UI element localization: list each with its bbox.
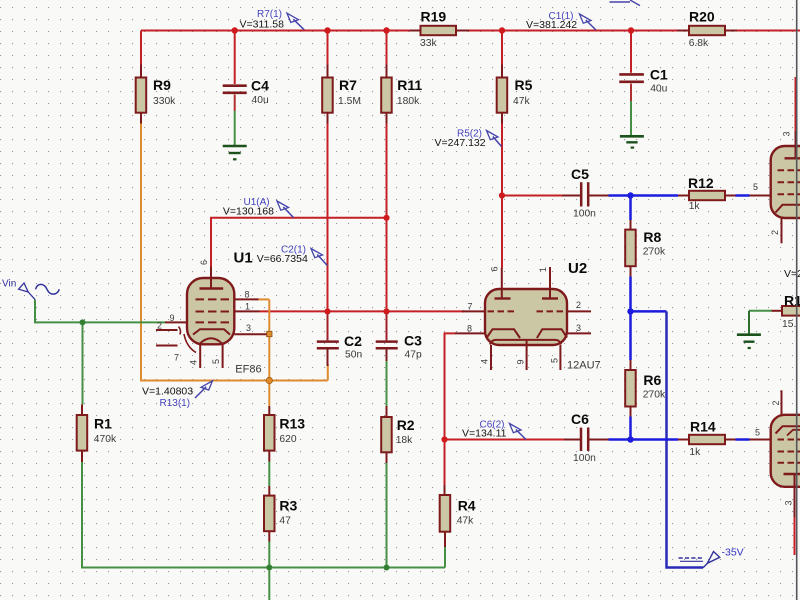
node grid bus / R7-C2 [324,308,330,314]
resistor R15 partial right edge [772,268,800,330]
wire C5 left [502,195,569,197]
U2 pin 6 lead into anode [501,268,503,299]
svg-text:1: 1 [245,302,250,312]
U2 pin 1 lead [549,267,551,299]
wire R11 top drop [386,31,388,66]
U1 pin 3 stub [234,333,266,335]
svg-text:U1: U1 [234,250,253,267]
U2 pin 7 stub [462,310,485,312]
svg-text:V=1.40803: V=1.40803 [142,386,193,398]
wire R12 right blue [736,194,750,197]
U4 pin 5 stub [750,439,771,441]
wire C4 top drop [234,31,236,85]
node rail-R7 [324,27,330,33]
wire R2 bottom to ground bus [386,463,388,568]
wire C2 top stub [327,311,329,340]
wire anode node down to grid node [386,218,388,312]
wire blue to R14 [631,438,679,441]
svg-text:V=66.7354: V=66.7354 [257,253,308,265]
capacitor C3 47p [376,333,422,361]
svg-text:2: 2 [770,230,780,235]
U1 pin 9 stub [165,321,187,323]
ground right of schematic [737,335,761,348]
resistor R20 6.8k horizontal [677,9,737,49]
wire R7 bottom to node [327,124,329,312]
svg-text:4: 4 [189,360,199,365]
tube U1 EF86 [156,250,269,376]
wire U3 anode feed [795,77,797,131]
U4 grid dashes [778,440,800,463]
ground under C4 [223,146,247,159]
wire R9 top drop [140,31,142,66]
U2 pin 2 stub [567,310,591,312]
svg-text:R6: R6 [643,372,661,388]
node blue C5-R8 [627,192,633,198]
svg-text:9: 9 [170,313,175,323]
svg-text:180k: 180k [397,96,420,107]
svg-text:3: 3 [784,500,794,505]
wire Vin green [35,300,83,323]
wire R4 top stub [444,440,446,486]
svg-text:100n: 100n [573,453,596,464]
svg-text:-35V: -35V [722,547,744,559]
svg-text:6: 6 [490,266,500,271]
wire R14 right blue [736,438,750,441]
svg-text:R12: R12 [688,175,714,191]
U1 pin 7 stub [156,345,178,347]
svg-text:5: 5 [211,359,221,364]
U2 anode A plate [495,297,511,299]
svg-text:47p: 47p [405,350,422,361]
capacitor C6 100n [564,411,609,464]
svg-text:47k: 47k [457,516,474,527]
U1 pin 5 lead [222,344,224,369]
svg-text:100n: 100n [573,208,596,219]
node rail-R11 [383,27,389,33]
node rail-C4 [232,27,238,33]
U2 pin 8 stub [455,332,485,334]
svg-text:Vin: Vin [2,279,16,290]
svg-text:47: 47 [279,516,291,527]
wire R1 bottom + ground bus [82,462,445,568]
resistor R14 1k horizontal [678,419,736,459]
U2 pin 4 lead [490,345,492,370]
wire blue node down to R8 [629,196,632,221]
svg-text:V=134.11: V=134.11 [462,428,507,440]
U3 pin 2 stub [781,218,783,243]
node blue R6-C6-R14 [627,436,633,442]
svg-text:5: 5 [550,358,560,363]
wire blue node to R12 [631,194,679,197]
svg-text:R7: R7 [339,77,357,93]
U1 pin 1 stub [234,310,259,312]
resistor R4 47k [440,485,476,547]
svg-text:1k: 1k [689,447,701,458]
svg-text:270k: 270k [643,247,666,258]
wire R3 bottom [268,542,270,568]
U1 heater dome [200,338,223,344]
terminal Vin input [2,279,59,300]
wire input node down to R1 [82,322,84,404]
svg-text:U2: U2 [568,260,587,277]
wire C1 bottom to ground [630,84,632,101]
U3 anode plate [785,157,800,159]
resistor R3 47 [264,486,298,542]
wire C2 bottom stub [327,349,329,366]
svg-text:R13: R13 [279,416,305,432]
sheet border right edge [796,0,798,600]
svg-text:R9: R9 [153,77,171,93]
node C6-R4 [441,436,447,442]
svg-text:V=247.132: V=247.132 [435,137,486,149]
probe R13(1) [142,381,213,409]
svg-text:V=381.242: V=381.242 [526,19,577,31]
svg-text:3: 3 [782,131,792,136]
resistor R8 270k [625,220,666,277]
svg-text:C1: C1 [650,67,668,83]
svg-text:5: 5 [753,182,758,192]
resistor R13 620 [264,406,305,462]
probe C1(1) [526,11,596,31]
svg-text:R1: R1 [94,416,112,432]
svg-text:C6: C6 [571,411,589,427]
sine generator symbol [36,284,60,294]
wire U2 pin8 cathode to R4 node [445,333,456,439]
svg-text:1: 1 [538,267,548,272]
wire R11 bottom to anode node [386,124,388,218]
svg-text:4: 4 [480,359,490,364]
wire orange cathode net pins 8-3-R13 [268,300,270,407]
resistor R5 47k [497,65,533,124]
tube U3 partial right edge [750,131,800,243]
U2 pin 9 lead [526,340,528,370]
wire C3 top stub [386,311,388,340]
svg-text:V=2: V=2 [784,268,800,280]
resistor R11 180k [381,65,422,124]
probe C6(2) [462,420,526,440]
svg-text:3: 3 [576,323,581,333]
terminal -35V power [679,547,744,568]
node green ground bus R2 [384,565,390,571]
U2 pin 3 stub [567,332,591,334]
U2 cathode B [537,329,567,338]
svg-text:R14: R14 [690,419,716,435]
node rail-R5 [499,27,505,33]
svg-text:8: 8 [245,290,250,300]
U2 cathode A [487,329,521,338]
node grid bus / C3 [383,308,389,314]
svg-text:5: 5 [755,428,760,438]
wire R9 bottom orange feedback [141,124,328,381]
tube U2 12AU7 [455,260,601,372]
capacitor C1 40u [619,67,668,95]
capacitor C4 40u [223,78,269,107]
wire HT rail mid segment [469,30,678,32]
svg-text:620: 620 [279,434,296,445]
svg-text:7: 7 [468,302,473,312]
wire C4 bottom to ground [234,95,236,112]
svg-text:50n: 50n [345,350,362,361]
svg-text:2: 2 [157,321,162,331]
resistor R19 33k horizontal [410,9,470,49]
node blue R8-R6 [627,308,633,314]
svg-text:33k: 33k [420,38,437,49]
svg-text:C3: C3 [404,333,422,349]
svg-text:330k: 330k [153,96,176,107]
wire HT rail left segment [141,30,410,32]
svg-text:C5: C5 [571,166,589,182]
wire orange riser to C2 bottom [327,364,329,381]
wire R15 ground green [749,310,772,312]
probe C2(1) [257,245,328,266]
svg-text:3: 3 [246,323,251,333]
wire input node to U1 pin9 [83,321,166,323]
svg-text:C2: C2 [344,333,362,349]
svg-text:R1: R1 [784,293,800,309]
svg-text:1k: 1k [689,201,701,212]
svg-text:R5: R5 [515,77,533,93]
U1 pin 2 stub [156,329,178,331]
U2 pin 5 lead [559,345,561,370]
U3 grid dashes [778,170,800,194]
resistor R9 330k [136,65,176,124]
wire C5 right blue [609,194,631,197]
resistor R12 1k horizontal [678,175,736,212]
resistor R7 1.5M [322,65,361,124]
U3 pin 5 stub [750,195,771,197]
U3 pin3 lead [795,131,797,158]
svg-text:R3: R3 [279,498,297,514]
svg-text:R20: R20 [689,9,715,25]
U3 cathode [776,205,800,213]
svg-text:R11: R11 [397,77,422,93]
U1 pin 6 lead [210,267,212,289]
wire R6 bottom to C6 node [629,417,632,440]
wire R4 bottom to ground bus [444,547,446,568]
svg-text:6: 6 [199,260,209,265]
wire C1 top drop [630,31,632,73]
wire U4 pin3 down [794,517,796,555]
node rail-C1 [628,27,634,33]
U2 heater bar [490,340,561,345]
node orange cathode-R13 [266,377,272,383]
U1 anode plate [200,287,224,289]
resistor R6 270k [625,360,666,417]
wire U1 anode horizontal [211,218,387,267]
wire C3 bottom to R2 [386,349,388,361]
wire mid node down to R6 [629,311,632,360]
wire C6 node horizontal [445,439,567,441]
node green input [80,319,86,325]
svg-text:EF86: EF86 [235,364,261,376]
partial probe top edge [610,0,641,6]
resistor R1 470k [77,405,117,463]
U4 cathode top [776,426,800,433]
U2 grid dashes [488,310,566,312]
node R5-C5-U2 anode [499,192,505,198]
svg-text:R19: R19 [421,9,447,25]
wire C6 right blue [609,438,631,441]
wire ground bus down to bottom edge [268,568,270,600]
svg-text:40u: 40u [252,95,269,106]
svg-text:V=311.58: V=311.58 [240,19,285,31]
wire R7 top drop [327,31,329,66]
U1 grid dashes [196,299,230,322]
svg-text:2: 2 [771,400,781,405]
node green ground bus R13 [266,565,272,571]
svg-text:8: 8 [467,324,472,334]
U1 pin 8 stub [234,298,258,300]
svg-text:6.8k: 6.8k [689,38,709,49]
capacitor C5 100n [562,166,609,219]
wire R5 top drop [501,31,503,66]
probe R7(1) [240,9,305,30]
node U1 anode / R11 [383,215,389,221]
U1 pin 4 lead [199,344,201,369]
svg-text:R2: R2 [397,417,415,433]
svg-text:9: 9 [516,359,526,364]
svg-text:R13(1): R13(1) [160,398,191,409]
svg-text:12AU7: 12AU7 [567,360,601,372]
wire R8 bottom to mid node [629,277,632,312]
U4 pin 2 stub [781,390,783,415]
U1 heater arcs [179,327,181,335]
capacitor C2 50n [317,333,363,361]
wire R13 to R3 [268,462,270,487]
tube U4 partial right edge [750,390,800,517]
probe R5(2) [435,129,502,150]
wire mid node right and down to -35V [631,310,667,313]
svg-text:7: 7 [174,353,179,363]
svg-text:18k: 18k [396,435,413,446]
svg-text:R8: R8 [643,229,661,245]
svg-text:270k: 270k [643,390,666,401]
svg-text:R4: R4 [458,498,476,514]
svg-text:470k: 470k [94,434,117,445]
svg-text:1.5M: 1.5M [338,96,361,107]
U1 cathode [193,329,230,334]
wire HT rail right segment [737,30,800,32]
resistor R2 18k [381,406,415,463]
wire R5 bottom to C5 node [501,124,503,196]
svg-text:15.: 15. [782,319,796,330]
ground under C1 [620,136,644,147]
node orange square pin3 [267,331,272,336]
svg-text:40u: 40u [650,84,667,95]
svg-text:C4: C4 [251,78,269,94]
wire grid bus U1 pin1 to U2 pin7 [260,310,465,312]
U4 pin3 lead [794,474,796,517]
svg-text:2: 2 [576,300,581,310]
wire C5 node to U2 pin6 [501,196,503,268]
probe U1(A) [223,197,294,218]
svg-text:V=130.168: V=130.168 [223,206,274,218]
U4 anode plate [784,473,800,475]
U2 anode B plate [542,297,558,299]
svg-text:47k: 47k [513,96,530,107]
